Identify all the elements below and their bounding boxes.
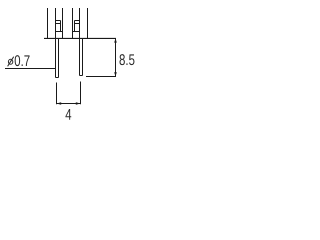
right pin crimp band bottom [75,23,80,25]
label 8.5 [120,54,135,65]
right pin lead bottom [80,75,83,77]
4 dim right extension line [80,82,82,105]
4 dim left extension line [56,83,58,105]
seating plane line and 8.5 top extension [44,37,116,39]
left pin lead right line [58,38,60,77]
left pin crimp band top [56,20,61,22]
right pin step line [73,31,80,33]
right pin crimp band top [75,20,80,22]
label 0.7 [15,55,30,66]
right pin sleeve right line [87,8,89,39]
phi symbol circle [8,59,12,64]
right pin sleeve left line [72,8,74,39]
label 4 [65,109,71,120]
right pin lead left line [79,8,81,76]
left pin crimp band bottom [56,23,61,25]
left pin lead left line [55,8,57,78]
left pin lead bottom [56,77,59,79]
8.5 dimension line [115,38,117,76]
phi0.7 leader line [5,68,56,70]
left pin sleeve left line [47,8,49,39]
right pin lead right line [82,38,84,75]
4 dim arrow left [57,102,62,105]
8.5 dim arrow down [114,72,117,76]
left pin step line [56,31,63,33]
8.5 dim arrow up [114,38,117,42]
left pin inner vertical [60,21,62,32]
4 dim arrow right [76,102,81,105]
4 dimension line [57,103,81,105]
phi symbol slash [8,57,14,67]
8.5 bottom extension line [86,76,116,78]
right pin inner vertical [74,21,76,32]
left pin sleeve right line [62,8,64,39]
